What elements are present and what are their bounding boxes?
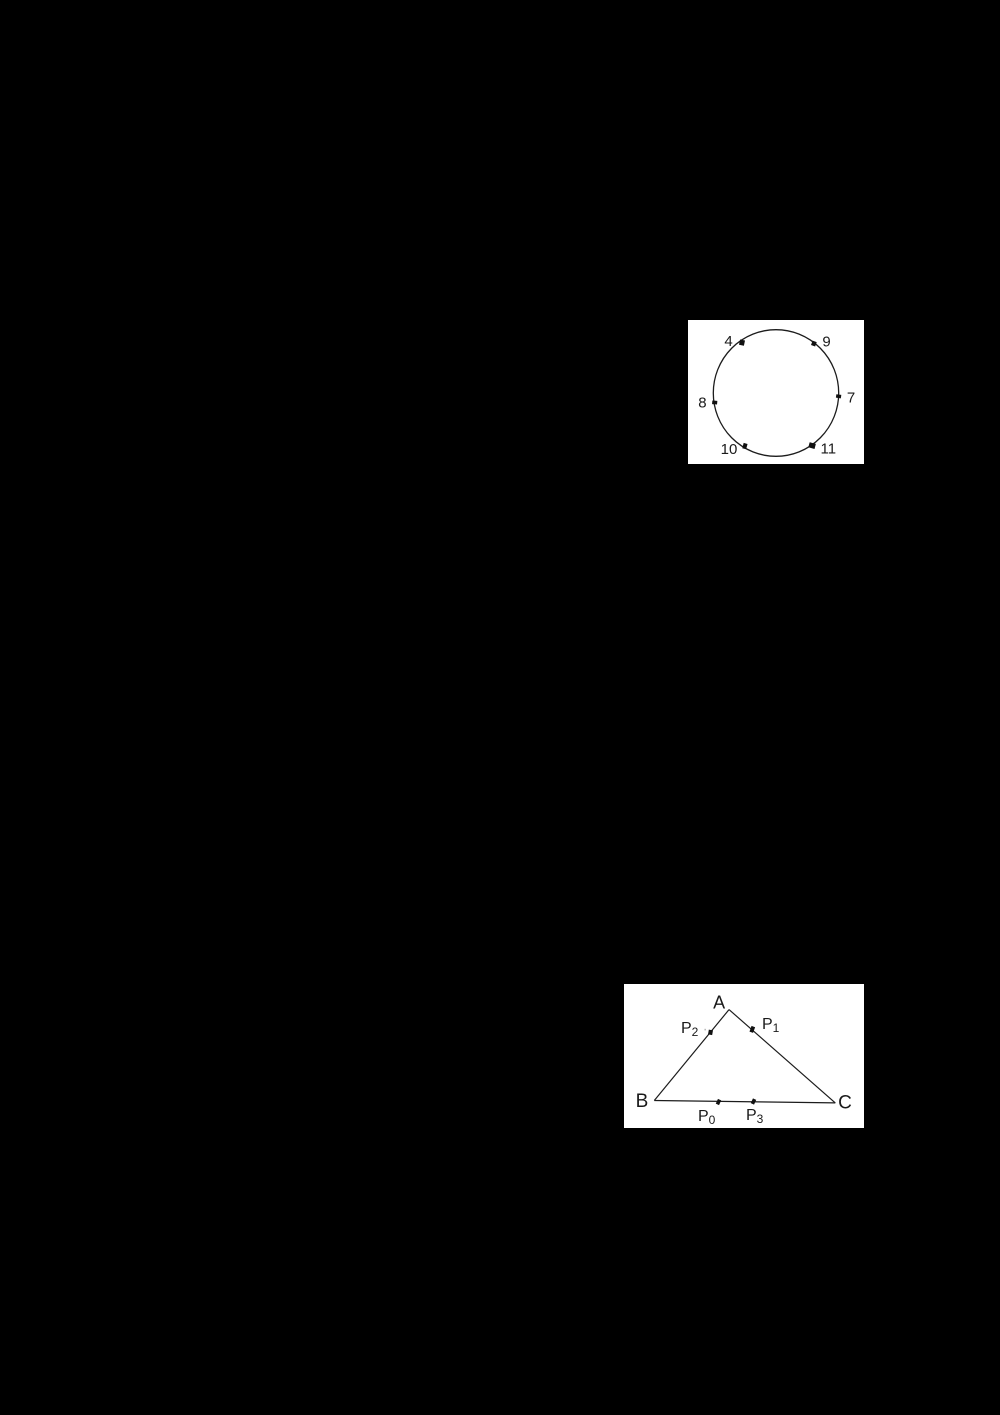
svg-text:P2: P2: [681, 1020, 699, 1039]
vertex label C: [838, 1092, 852, 1113]
svg-text:P0: P0: [698, 1108, 716, 1127]
svg-text:4: 4: [724, 333, 732, 350]
svg-text:A: A: [713, 993, 725, 1013]
circle: [713, 330, 838, 457]
point dot 4: [739, 339, 745, 345]
side AC: [729, 1010, 835, 1103]
svg-text:7: 7: [847, 390, 855, 407]
side BC: [654, 1101, 835, 1103]
point dot 8: [712, 400, 717, 404]
vertex label A: [713, 993, 725, 1013]
svg-text:B: B: [636, 1091, 649, 1112]
label 8: [698, 395, 706, 412]
label P0: [698, 1108, 716, 1127]
vertex label B: [636, 1091, 649, 1112]
scan speck near P2: [704, 1029, 706, 1031]
figure box: triangle ABC with points P0..P3: [624, 984, 864, 1128]
side AB: [654, 1010, 729, 1101]
svg-text:8: 8: [698, 395, 706, 412]
point dot 9: [811, 341, 817, 347]
point dot P3: [751, 1098, 756, 1104]
point dot 7: [836, 394, 841, 398]
svg-text:11: 11: [821, 441, 837, 458]
point dot 11: [808, 442, 816, 449]
label 9: [822, 334, 830, 351]
svg-text:C: C: [838, 1092, 852, 1113]
svg-text:P1: P1: [762, 1016, 780, 1035]
label P2: [681, 1020, 699, 1039]
svg-text:10: 10: [721, 441, 738, 458]
label 7: [847, 390, 855, 407]
label P1: [762, 1016, 780, 1035]
label 10: [721, 441, 738, 458]
point dot P1: [749, 1026, 755, 1033]
svg-text:9: 9: [822, 334, 830, 351]
label P3: [746, 1107, 764, 1126]
svg-text:P3: P3: [746, 1107, 764, 1126]
figure box: circle with labeled points: [688, 320, 864, 464]
point dot P2: [708, 1030, 713, 1035]
label 4: [724, 333, 732, 350]
label 11: [821, 441, 837, 458]
point dot 10: [742, 443, 747, 449]
point dot P0: [716, 1099, 721, 1105]
